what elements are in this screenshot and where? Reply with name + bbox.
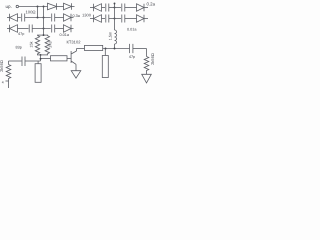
svg-text:83p: 83p xyxy=(16,46,22,50)
diode D10 xyxy=(64,25,74,32)
node dot A37 xyxy=(37,6,39,8)
wire bus vertical xyxy=(114,3,116,30)
svg-text:15k: 15k xyxy=(30,41,34,47)
diode D8 xyxy=(137,15,149,22)
svg-text:243: 243 xyxy=(49,41,53,47)
resistor R1 left xyxy=(0,60,11,88)
svg-text:0.01a: 0.01a xyxy=(127,28,137,32)
capacitor C7 xyxy=(29,25,51,33)
node dot 114 xyxy=(114,48,116,50)
diode D5 xyxy=(7,14,21,22)
diode D3 xyxy=(90,4,105,12)
node dot 106 xyxy=(105,48,107,50)
svg-text:0.2a: 0.2a xyxy=(147,1,156,6)
svg-text:47p: 47p xyxy=(129,55,135,59)
diode D6 xyxy=(64,14,74,21)
svg-text:47p: 47p xyxy=(18,32,24,36)
svg-text:0.01a: 0.01a xyxy=(60,33,70,37)
node dot bus row A xyxy=(114,7,116,9)
resistor R collector box xyxy=(77,45,103,50)
capacitor C9 output xyxy=(129,44,135,59)
inductor L1 xyxy=(108,30,116,44)
capacitor C1 xyxy=(22,14,51,22)
wire vertical x43 xyxy=(43,7,45,29)
resistor R base box xyxy=(51,56,72,61)
diode D2 xyxy=(64,3,75,10)
diode D9 xyxy=(7,25,29,33)
svg-text:4: 4 xyxy=(2,81,4,85)
diode D1 xyxy=(48,3,64,10)
svg-text:up.: up. xyxy=(6,4,12,9)
resistors R2 R3 parallel xyxy=(30,29,53,56)
node dot A43 xyxy=(43,6,45,8)
wire output corner xyxy=(146,49,148,57)
diode D7 xyxy=(90,15,105,23)
input terminal up. xyxy=(6,4,19,9)
capacitor C10 xyxy=(22,57,25,67)
emitter arrow xyxy=(71,71,81,78)
wire vertical x37 xyxy=(37,7,39,18)
capacitor C4 xyxy=(115,4,137,12)
wire row A left xyxy=(19,6,48,8)
capacitor C3 xyxy=(106,4,115,12)
node dot B43 xyxy=(43,17,45,19)
capacitor C6 xyxy=(115,15,137,23)
resistor R5 vertical box xyxy=(102,49,108,78)
node dot B37 xyxy=(37,17,39,19)
wire collector rail xyxy=(103,48,147,50)
output arrow down xyxy=(142,74,152,83)
transistor Q1 xyxy=(71,49,76,71)
svg-text:1300: 1300 xyxy=(82,13,92,18)
node dot bus top xyxy=(114,3,116,5)
svg-text:100Ω: 100Ω xyxy=(25,9,35,14)
capacitor C5 xyxy=(106,15,115,23)
node junction base xyxy=(40,55,51,61)
resistor R output xyxy=(144,53,155,74)
diode D4 xyxy=(137,4,149,11)
wire rail bottom left xyxy=(9,61,41,65)
svg-text:2k56Ω: 2k56Ω xyxy=(150,53,155,65)
svg-text:1,5m: 1,5m xyxy=(108,32,112,40)
node dot bus row B xyxy=(114,18,116,20)
resistor R4 vertical box xyxy=(35,61,41,82)
svg-text:2k56Ω: 2k56Ω xyxy=(0,60,4,72)
svg-text:0.3a: 0.3a xyxy=(73,14,81,18)
node dot C43 xyxy=(43,28,45,30)
capacitor C8 xyxy=(52,25,64,33)
capacitor C2 xyxy=(52,14,64,22)
wire bus to collector rail xyxy=(114,44,116,49)
svg-text:КТ3102: КТ3102 xyxy=(67,40,82,45)
